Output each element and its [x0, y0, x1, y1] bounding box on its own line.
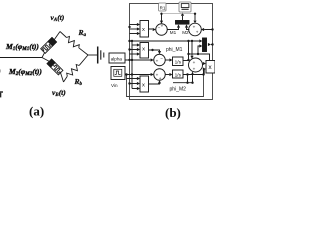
svg-text:vA(t): vA(t) [51, 13, 65, 23]
memristor M2 [42, 58, 63, 75]
svg-text:x: x [142, 46, 145, 52]
wire bus alpha branch [131, 41, 133, 89]
svg-text:(a): (a) [29, 104, 44, 119]
product block P4 right [203, 61, 215, 75]
svg-text:+: + [161, 24, 164, 29]
product block P1 [130, 21, 149, 38]
source block Vin [111, 67, 125, 80]
resistor Rb [64, 55, 89, 82]
svg-text:phi_M1: phi_M1 [166, 47, 183, 53]
wire feedback inner loop [127, 68, 204, 97]
svg-text:+: + [193, 60, 196, 65]
integrator block I1 [165, 57, 183, 66]
svg-text:vB(t): vB(t) [52, 88, 66, 98]
cropped glyph fragment at left edge lower [0, 91, 3, 97]
source block alpha [109, 53, 125, 63]
svg-text:+: + [156, 58, 159, 63]
sum block M2 [189, 23, 202, 36]
wire input left horizontal [0, 57, 42, 59]
wire sum M1 to mux [167, 24, 180, 29]
wire horizontal to mux input 1 [130, 40, 200, 42]
wire phi_M2 net [173, 68, 205, 84]
wire sum M2 to mux [185, 24, 189, 29]
product block P3 [127, 76, 149, 92]
svg-text:+: + [193, 66, 196, 71]
svg-text:−: − [160, 56, 163, 61]
wire right feedback into sum M2 [201, 28, 214, 31]
svg-text:Vin: Vin [111, 83, 118, 88]
svg-text:+: + [196, 30, 199, 35]
wire R1 to sum M1 with junction [160, 13, 163, 24]
ground [98, 47, 104, 64]
integrator block I2 [165, 70, 183, 78]
wire mux right output [208, 43, 214, 46]
svg-text:M2: M2 [182, 30, 189, 35]
svg-text:x: x [142, 83, 145, 89]
wire M2 to node B [61, 73, 64, 82]
wire node R to ground [88, 54, 97, 56]
svg-text:phi_M2: phi_M2 [170, 87, 187, 93]
svg-text:alpha: alpha [111, 57, 123, 62]
constant block R1 [159, 3, 166, 11]
product block P2 [130, 43, 149, 59]
mux input 1 arrowhead [199, 39, 202, 42]
wire alpha to sum A [125, 58, 154, 61]
wire P2 to sum A top [149, 49, 162, 54]
sum block M1 [153, 24, 168, 36]
svg-text:+: + [159, 76, 162, 81]
wire Vin to sum B [125, 73, 154, 76]
wire feedback outer ring [130, 4, 213, 100]
wire mux to scope [181, 13, 184, 21]
sum block C [189, 58, 203, 72]
node L junction [42, 53, 45, 58]
scope block [179, 2, 191, 12]
wire P1 to sum M1 [149, 28, 153, 31]
svg-text:M1(φM1(t)): M1(φM1(t)) [5, 42, 39, 52]
wire top feed to sum M2 [163, 13, 197, 24]
svg-text:(b): (b) [165, 105, 181, 120]
sum block A [154, 54, 166, 66]
wire M1 to node T [54, 32, 60, 40]
sum block B [154, 69, 166, 81]
wire sum C output [203, 62, 206, 65]
svg-text:1/s: 1/s [175, 72, 182, 78]
mux block top [176, 21, 190, 25]
svg-text:M2(φM2(t)): M2(φM2(t)) [8, 67, 42, 77]
wire P3 to sum B bottom [149, 80, 162, 84]
junction dots on buses [128, 26, 133, 85]
wire y54 extension into P4 [198, 54, 210, 61]
svg-text:x: x [142, 27, 145, 33]
svg-text:1/s: 1/s [175, 59, 182, 65]
memristor M1 [41, 37, 57, 53]
resistor Ra [60, 32, 88, 56]
svg-text:M1: M1 [170, 30, 177, 35]
mux block right [203, 38, 207, 52]
svg-text:R1: R1 [160, 6, 166, 11]
wire phi_M1 net [183, 40, 202, 61]
